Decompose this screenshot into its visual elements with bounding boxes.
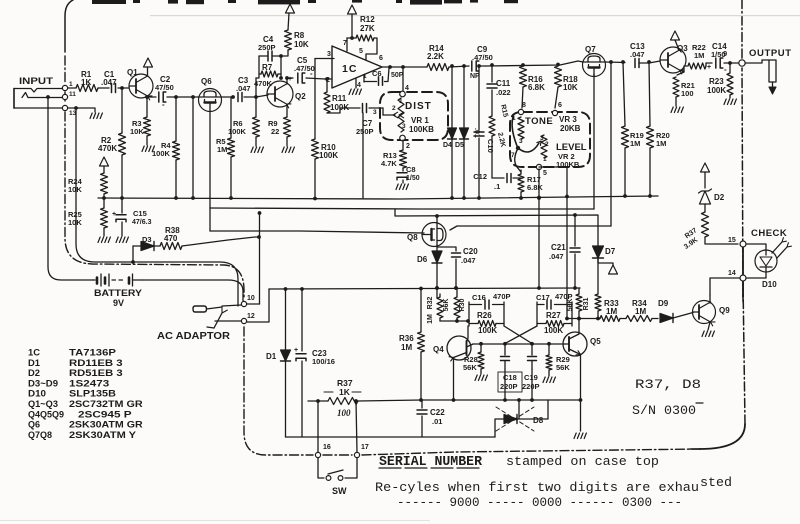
svg-text:D2: D2: [714, 193, 725, 202]
diode D8 (deleted): [495, 398, 548, 437]
node 14: [728, 270, 746, 281]
supply riser: [258, 211, 262, 304]
svg-text:8: 8: [522, 102, 526, 109]
svg-text:D2: D2: [28, 368, 40, 378]
transistor Q3: [660, 44, 688, 74]
wire to node 9: [728, 61, 738, 65]
svg-text:5: 5: [543, 170, 547, 177]
capacitor C6: [364, 68, 404, 85]
svg-text:R27: R27: [546, 311, 561, 320]
svg-text:.047: .047: [101, 78, 117, 87]
svg-text:100K: 100K: [707, 86, 726, 95]
svg-text:D6: D6: [417, 255, 428, 264]
svg-text:.47/50: .47/50: [472, 53, 493, 62]
svg-text:R26: R26: [477, 311, 492, 320]
svg-text:50P: 50P: [391, 72, 404, 79]
svg-text:100K: 100K: [478, 326, 497, 335]
resistor R24: [68, 157, 109, 200]
resistor R9: [268, 117, 291, 137]
OUTPUT label: [749, 48, 792, 59]
wire Q1 emitter down to R3: [146, 97, 148, 117]
wire Q8 source down: [436, 246, 438, 251]
AC ADAPTOR label: [157, 331, 231, 342]
ground below R25: [98, 237, 110, 243]
svg-text:Q7: Q7: [585, 45, 596, 54]
enclosure chain line bottom (through footswitch nodes): [323, 449, 700, 455]
resistor R38: [154, 226, 182, 250]
svg-text:sted: sted: [700, 475, 732, 490]
R37 old value note: [337, 408, 351, 418]
battery plus wire: [143, 280, 243, 301]
vcc arrow above D2: [701, 163, 710, 172]
svg-text:.022: .022: [496, 88, 511, 97]
svg-text:10K: 10K: [563, 83, 578, 92]
pin 7: [343, 38, 347, 51]
resistor R23: [707, 63, 733, 98]
svg-text:100K: 100K: [228, 127, 247, 136]
svg-text:D10: D10: [28, 389, 46, 399]
footswitch SW: [318, 458, 357, 496]
capacitor C23 electrolytic: [294, 289, 335, 437]
wire D4 D5 to bias rail: [450, 139, 466, 200]
svg-text:56K: 56K: [443, 299, 450, 312]
svg-text:D1: D1: [266, 352, 277, 361]
resistor R30: [440, 288, 466, 321]
wire D4 D5 risers: [450, 64, 466, 128]
svg-text:15: 15: [728, 237, 736, 244]
wire R15 to C12: [491, 136, 493, 178]
svg-text:D3~D9: D3~D9: [28, 378, 58, 388]
wire node15 to LED: [746, 244, 766, 250]
svg-text:2.2K: 2.2K: [496, 132, 506, 148]
lfo emitter rail: [422, 398, 581, 402]
capacitor C7: [327, 104, 383, 137]
gate rail C stub: [209, 208, 211, 231]
ground at input: [90, 113, 102, 119]
node 11: [62, 91, 76, 100]
svg-text:470K: 470K: [98, 144, 117, 153]
vcc arrow at Q1 collector: [144, 58, 153, 76]
svg-text:Q1~Q3: Q1~Q3: [28, 399, 58, 409]
svg-text:C22: C22: [430, 408, 445, 417]
svg-text:DIST: DIST: [405, 101, 432, 112]
wire Q6 to C3: [222, 95, 235, 99]
wire level rail down: [537, 198, 541, 290]
node 12: [241, 313, 254, 324]
gate rail B1: [210, 208, 594, 209]
wire C7 node to bias rail: [362, 113, 364, 198]
pin 3: [315, 51, 334, 59]
svg-text:11: 11: [69, 91, 76, 98]
svg-text:470: 470: [164, 234, 178, 243]
svg-text:100K: 100K: [152, 149, 171, 158]
resistor R5: [216, 137, 235, 157]
capacitor C16: [469, 292, 511, 309]
wire sleeve to D3: [131, 246, 135, 264]
resistor R35 right of R31: [595, 258, 601, 320]
svg-text:2SK30ATM GR: 2SK30ATM GR: [69, 420, 143, 430]
svg-text:20KB: 20KB: [560, 124, 581, 133]
resistor R8: [279, 30, 309, 58]
svg-text:220P: 220P: [500, 382, 518, 391]
svg-text:BATTERY: BATTERY: [94, 288, 142, 298]
resistor R10: [312, 59, 339, 201]
wire long vertical to bias rail: [191, 97, 195, 200]
svg-text:12: 12: [247, 313, 255, 320]
enclosure chain line right: [690, 0, 745, 449]
wire row junction riser: [609, 60, 613, 226]
resistor R1: [76, 70, 98, 92]
svg-text:3: 3: [327, 51, 331, 58]
resistor R15: [489, 104, 509, 148]
diode D2 zener: [699, 172, 725, 212]
svg-text:R37, D8: R37, D8: [635, 377, 701, 392]
svg-text:CHECK: CHECK: [751, 228, 787, 239]
svg-text:1M: 1M: [217, 145, 227, 154]
capacitor C9 electrolytic: [449, 45, 493, 80]
svg-text:R11: R11: [332, 94, 347, 103]
svg-text:1M: 1M: [694, 51, 704, 60]
wire C1 to Q1 base: [118, 86, 129, 90]
ground below C8: [396, 184, 408, 190]
potentiometer VR1 DIST box: [380, 92, 448, 140]
wire junction down to R2: [121, 88, 123, 133]
ground below C15: [116, 237, 128, 243]
resistor R21: [673, 77, 695, 98]
resistor R14: [427, 44, 449, 71]
wire Q6 gate down to rail B1: [209, 111, 211, 208]
svg-text:TA7136P: TA7136P: [69, 348, 116, 358]
svg-text:2SC732TM GR: 2SC732TM GR: [69, 399, 143, 409]
node C3 out junction: [254, 95, 258, 99]
svg-text:6.8K: 6.8K: [527, 183, 543, 192]
svg-text:6: 6: [379, 55, 383, 62]
svg-text:100KB: 100KB: [409, 125, 434, 134]
svg-text:14: 14: [728, 270, 736, 277]
op-amp IC TA7136P: [332, 46, 382, 88]
ground below Q5 emitter: [574, 400, 586, 439]
wire pin6 row: [390, 66, 427, 68]
svg-text:+: +: [288, 76, 292, 83]
svg-text:AC ADAPTOR: AC ADAPTOR: [157, 331, 231, 342]
svg-text:100: 100: [681, 89, 694, 98]
wire level riser long: [565, 168, 569, 319]
svg-text:470P: 470P: [493, 292, 511, 301]
fet Q7: [583, 45, 606, 77]
wire plug to node 10: [222, 305, 241, 306]
svg-text:22: 22: [271, 127, 279, 136]
wire R19 riser: [621, 60, 625, 126]
svg-text:1C: 1C: [342, 63, 357, 75]
svg-text:-: -: [724, 65, 727, 74]
svg-text:+: +: [112, 211, 116, 218]
svg-text:1M: 1M: [656, 139, 666, 148]
wire Q3 emitter node: [677, 66, 687, 75]
transistor Q9: [693, 301, 731, 326]
wire R20 to bias rail: [648, 148, 652, 198]
diode D6: [417, 251, 442, 264]
CHECK label: [751, 228, 787, 239]
svg-text:D5: D5: [455, 142, 464, 149]
note serial 0300: [632, 403, 703, 418]
recycles note: [375, 475, 732, 495]
resistor R28: [463, 344, 484, 374]
capacitor C13: [630, 42, 649, 68]
wire R4 to bias rail: [174, 160, 178, 200]
wire junction down to R5: [230, 97, 232, 138]
svg-text:10K: 10K: [294, 40, 309, 49]
svg-text:.047: .047: [461, 256, 476, 265]
ground below R6: [251, 137, 263, 153]
node 16: [315, 444, 330, 458]
svg-text:5: 5: [359, 48, 363, 55]
wire C3 node up to feedback row: [255, 78, 257, 97]
svg-text:9V: 9V: [113, 298, 124, 308]
svg-text:C10: C10: [486, 139, 495, 153]
rail C right portion: [450, 226, 611, 230]
svg-text:2: 2: [406, 143, 410, 150]
wire node5 bottom rail: [539, 166, 567, 168]
wire Q1 emitter to signal row: [145, 95, 152, 99]
svg-text:250P: 250P: [356, 127, 374, 136]
wire flip-flop base bus: [473, 342, 565, 346]
svg-text:.1: .1: [494, 182, 500, 191]
svg-text:------ 9000 ----- 0000 ------: ------ 9000 ----- 0000 ------ 0300 ---: [397, 495, 682, 510]
note R37 D8: [635, 377, 701, 392]
svg-text:100K: 100K: [319, 151, 338, 160]
svg-text:1K: 1K: [339, 387, 351, 397]
cropped title text remnants at top edge: [92, 0, 518, 5]
enclosure chain line lower left (through AC adaptor): [244, 327, 313, 455]
svg-text:4.7K: 4.7K: [381, 159, 397, 168]
wire R19 to bias rail: [623, 148, 627, 198]
svg-text:D9: D9: [658, 299, 669, 308]
svg-text:D7: D7: [605, 247, 616, 256]
svg-text:R15: R15: [499, 104, 509, 118]
svg-text:6.8K: 6.8K: [528, 83, 545, 92]
svg-text:R36: R36: [399, 334, 414, 343]
svg-text:1M: 1M: [630, 139, 640, 148]
svg-text:.047: .047: [236, 84, 251, 93]
pin 4: [356, 79, 361, 89]
resistor R31: [567, 288, 590, 320]
svg-text:Q7Q8: Q7Q8: [28, 430, 52, 440]
node pin6 junction: [388, 65, 392, 69]
vcc arrow below D7: [598, 258, 618, 274]
vcc arrow at Q3: [671, 31, 680, 50]
svg-text:VR 1: VR 1: [411, 116, 429, 125]
svg-text:D10: D10: [762, 280, 777, 289]
wire node12 to raw rail: [247, 289, 269, 322]
capacitor C12: [473, 172, 521, 191]
wire R2 to bias rail: [120, 155, 124, 200]
ground below R21: [671, 97, 683, 113]
node 15: [728, 237, 746, 247]
svg-text:R31: R31: [583, 297, 590, 310]
vcc arrow above R12: [348, 5, 357, 40]
svg-text:3.9K: 3.9K: [683, 237, 699, 251]
resistor R37: [308, 378, 422, 405]
svg-text:C16: C16: [472, 293, 486, 302]
svg-text:6: 6: [558, 102, 562, 109]
svg-text:Q4: Q4: [433, 345, 444, 354]
svg-text:.047: .047: [630, 50, 645, 59]
wire Q9 collector: [709, 295, 711, 303]
resistor R25: [68, 198, 108, 236]
raw +9V rail: [269, 286, 580, 291]
resistor R33: [565, 299, 620, 322]
resistor R19: [622, 126, 644, 148]
capacitor C22: [417, 400, 445, 437]
svg-text:100: 100: [337, 408, 351, 418]
capacitor C1: [101, 70, 117, 93]
svg-text:Q5: Q5: [590, 337, 601, 346]
LED arrows: [772, 238, 791, 258]
resistor R20: [647, 126, 670, 148]
VR3 TONE element: [511, 115, 524, 159]
battery B1: [93, 274, 143, 308]
ground below Q9: [702, 322, 714, 337]
svg-text:Q8: Q8: [407, 233, 418, 242]
resistor R6: [228, 117, 260, 137]
resistor R27: [537, 302, 572, 335]
capacitor C19: [522, 344, 540, 391]
capacitor C10: [473, 64, 495, 200]
svg-text:-: -: [310, 69, 313, 78]
transistor Q1: [127, 68, 153, 100]
resistor R3: [130, 117, 151, 136]
wire Q7 gate down: [593, 74, 595, 209]
svg-text:10K: 10K: [68, 185, 82, 194]
input jack J1: [14, 76, 62, 108]
pin 5: [359, 48, 363, 55]
svg-text:10: 10: [247, 295, 255, 302]
svg-text:1S2473: 1S2473: [69, 378, 109, 388]
fet Q8: [407, 223, 446, 247]
capacitor C20: [437, 247, 478, 290]
node 5: [536, 164, 547, 200]
svg-text:RD51EB 3: RD51EB 3: [69, 368, 123, 378]
potentiometer box VR3 VR2: [510, 112, 590, 167]
svg-text:S/N 0300: S/N 0300: [632, 403, 696, 418]
svg-text:Re-cyles when first two digits: Re-cyles when first two digits are exhau: [375, 480, 699, 495]
wire VR1 pin4 to signal row: [400, 65, 409, 97]
ground at pin 4: [349, 89, 361, 95]
wire D6 node down: [435, 263, 439, 298]
AC adaptor plug: [193, 306, 222, 312]
svg-text:10K: 10K: [68, 218, 82, 227]
svg-text:INPUT: INPUT: [19, 76, 53, 87]
svg-text:C6: C6: [372, 69, 382, 78]
svg-text:TONE: TONE: [525, 116, 553, 127]
svg-text:SW: SW: [332, 486, 347, 496]
VR2 value: [556, 152, 580, 169]
transistor Q4: [433, 326, 473, 400]
wire node1 to R1: [68, 87, 76, 89]
svg-text:Q4Q5Q9: Q4Q5Q9: [28, 409, 64, 419]
VR3 value: [559, 115, 581, 133]
diode D7: [593, 246, 616, 258]
svg-text:56K: 56K: [556, 363, 570, 372]
svg-text:56K: 56K: [567, 299, 574, 312]
svg-text:4: 4: [405, 85, 409, 92]
TONE label: [525, 116, 553, 127]
wire node11 to battery minus: [46, 95, 93, 280]
svg-text:C12: C12: [473, 172, 487, 181]
svg-text:+: +: [707, 64, 711, 71]
wire input sleeve to ground: [68, 108, 95, 112]
wire R36 riser: [420, 289, 422, 333]
VR2 LEVEL element: [518, 135, 549, 163]
svg-text:VR 3: VR 3: [559, 115, 577, 124]
svg-text:1/50: 1/50: [406, 175, 420, 182]
wire cross coupling diagonals: [504, 326, 537, 344]
wire LED bottom to node 14: [746, 272, 766, 278]
wire Q2 emitter down to R9: [286, 105, 288, 117]
svg-text:D4: D4: [443, 142, 452, 149]
svg-text:56K: 56K: [463, 363, 477, 372]
svg-text:4: 4: [357, 82, 361, 89]
svg-text:-: -: [162, 100, 165, 109]
node 9: [723, 49, 745, 66]
ground below R23: [724, 99, 736, 105]
svg-text:C20: C20: [463, 247, 478, 256]
svg-text:100/16: 100/16: [312, 357, 335, 366]
resistor R34: [620, 299, 652, 322]
svg-text:C19: C19: [524, 373, 538, 382]
node 1: [62, 81, 73, 91]
vcc arrow above R8: [286, 4, 295, 30]
resistor R35 3.9K: [683, 212, 708, 251]
capacitor C5 electrolytic: [287, 56, 325, 83]
node 10: [241, 295, 254, 307]
wire C18 C19 join: [505, 369, 532, 398]
wire node7 to R17: [515, 148, 521, 172]
wire node17 riser: [356, 401, 357, 452]
svg-text:2SC945 P: 2SC945 P: [78, 409, 132, 419]
bias rail (half supply): [98, 196, 658, 199]
ground below R3: [142, 136, 154, 152]
node 6 tone box: [552, 102, 562, 116]
diode D3: [133, 235, 154, 251]
resistor R12: [347, 15, 375, 41]
node 7 junction: [516, 146, 520, 150]
wire C13 to Q3 base: [649, 61, 660, 63]
wire signal row to tone stage: [486, 61, 583, 66]
output jack: [745, 60, 776, 86]
transistor Q5: [563, 317, 601, 402]
svg-text:220P: 220P: [522, 382, 540, 391]
wire junction down to R4: [175, 97, 177, 141]
svg-text:OUTPUT: OUTPUT: [749, 48, 792, 59]
resistor R16: [520, 63, 546, 108]
resistor R36: [399, 332, 425, 352]
svg-text:47/50: 47/50: [155, 83, 174, 92]
resistor R22: [688, 43, 706, 69]
serial number heading: [379, 454, 659, 470]
svg-text:R30: R30: [459, 298, 466, 311]
wire R35 to node 15: [705, 237, 738, 244]
svg-text:1M: 1M: [606, 307, 617, 316]
wire Q2 collector up: [279, 76, 289, 84]
capacitor C11: [487, 63, 511, 116]
LED D10: [755, 250, 777, 272]
bottom supply rail: [286, 436, 496, 438]
resistor R18: [555, 63, 579, 108]
resistor R29: [546, 344, 570, 376]
svg-text:1M: 1M: [401, 343, 412, 352]
node 13: [62, 105, 76, 117]
